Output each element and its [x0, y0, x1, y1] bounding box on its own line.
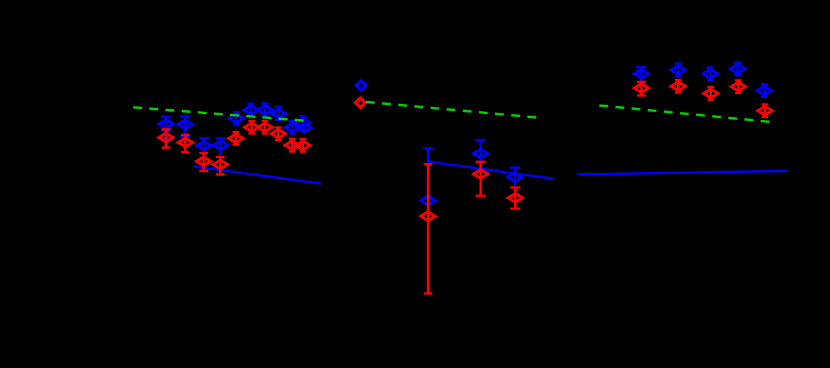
- red data point R3: [196, 153, 210, 171]
- blue data point B12: [421, 148, 435, 205]
- blue data point B6: [244, 104, 258, 117]
- red data point R7: [258, 121, 272, 134]
- blue data point B14: [508, 168, 522, 187]
- red data point R13: [474, 162, 488, 196]
- blue data point B15: [634, 67, 648, 81]
- blue data point B7: [258, 103, 272, 116]
- red data point R6: [245, 121, 259, 134]
- red data point R10: [296, 139, 310, 152]
- red data point R16: [671, 80, 685, 93]
- blue data point B10: [296, 116, 310, 129]
- red data point R5: [229, 132, 243, 145]
- blue data point B5: [229, 112, 243, 125]
- red data point R4: [213, 157, 227, 174]
- blue data point B16: [671, 64, 685, 77]
- blue data point B2: [178, 117, 192, 137]
- red data point R17: [704, 87, 718, 100]
- red data point R2: [178, 135, 192, 152]
- red data point R15: [634, 82, 648, 96]
- red data point R8: [271, 128, 285, 141]
- blue model line, middle panel: [428, 161, 555, 179]
- blue data point B1: [159, 117, 173, 131]
- blue model line, right panel: [578, 171, 788, 175]
- blue data point B1b (hidden behind red diamond R1): [160, 133, 172, 140]
- blue data point B18: [731, 62, 745, 75]
- red data point R9: [285, 139, 299, 152]
- blue data point B19: [757, 84, 771, 97]
- green dashed line, left panel: [133, 107, 306, 121]
- blue data point B10b (overlapping diamond): [297, 123, 311, 132]
- red data point R1: [159, 129, 173, 147]
- green dashed line, right panel: [599, 105, 770, 122]
- blue data point B11 (small diamond, middle panel): [356, 81, 366, 90]
- blue data point B17: [703, 67, 717, 80]
- blue data point B8: [271, 107, 285, 120]
- red data point R11 (small diamond, middle panel): [356, 98, 366, 107]
- blue data point B13: [473, 140, 487, 161]
- blue model line, left panel: [193, 166, 320, 183]
- red data point R19: [758, 104, 772, 117]
- blue data point B9: [285, 121, 299, 134]
- red data point R18: [731, 80, 745, 93]
- green dashed line, middle panel: [366, 102, 538, 118]
- red data point R12: [421, 164, 435, 293]
- red data point R14: [508, 188, 522, 209]
- blue data point B4: [213, 138, 227, 157]
- blue data point B3: [197, 138, 211, 152]
